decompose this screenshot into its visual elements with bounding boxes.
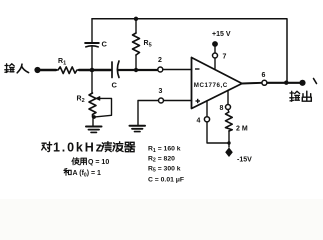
svg-text:1.0kHz: 1.0kHz — [53, 140, 104, 154]
svg-text:7: 7 — [223, 54, 227, 61]
svg-text:8: 8 — [220, 105, 224, 112]
svg-text:C: C — [102, 40, 108, 49]
svg-text:+15 V: +15 V — [212, 31, 231, 38]
svg-text:3: 3 — [159, 88, 163, 95]
svg-text:C: C — [112, 81, 118, 90]
svg-text:MC1776,C: MC1776,C — [194, 82, 228, 89]
svg-text:Q = 10: Q = 10 — [88, 159, 109, 166]
svg-text:2: 2 — [158, 57, 162, 64]
svg-text:2 M: 2 M — [236, 126, 248, 133]
svg-text:C = 0.01 μF: C = 0.01 μF — [148, 177, 184, 184]
svg-text:-15V: -15V — [237, 157, 252, 164]
svg-text:6: 6 — [262, 72, 266, 79]
svg-text:4: 4 — [197, 118, 201, 125]
